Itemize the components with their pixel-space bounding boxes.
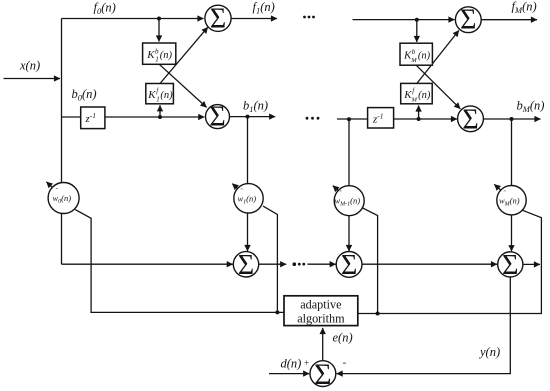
svg-text:(n): (n) — [160, 90, 173, 101]
svg-text:y(n): y(n) — [478, 345, 500, 359]
svg-text:K: K — [147, 89, 156, 101]
svg-text:fM(n): fM(n) — [512, 0, 537, 15]
svg-text:M: M — [410, 57, 417, 64]
svg-text:Σ: Σ — [210, 3, 226, 34]
svg-text:1: 1 — [156, 96, 160, 104]
svg-text:x(n): x(n) — [19, 59, 40, 73]
svg-text:(n): (n) — [418, 51, 431, 62]
svg-text:Σ: Σ — [209, 101, 225, 132]
svg-text:(n): (n) — [160, 50, 173, 61]
svg-text:-: - — [343, 356, 347, 368]
svg-text:b: b — [412, 48, 416, 56]
svg-text:algorithm: algorithm — [297, 311, 345, 325]
svg-text:+: + — [304, 359, 309, 369]
svg-text:b0(n): b0(n) — [72, 87, 97, 103]
svg-text:M: M — [411, 97, 418, 104]
svg-text:Σ: Σ — [462, 104, 478, 135]
svg-text:Σ: Σ — [460, 5, 476, 36]
svg-text:Σ: Σ — [502, 250, 518, 281]
svg-text:f0(n): f0(n) — [94, 1, 116, 17]
svg-text:adaptive: adaptive — [300, 297, 341, 311]
svg-text:Σ: Σ — [341, 250, 357, 281]
svg-text:e(n): e(n) — [333, 331, 353, 345]
svg-text:b: b — [155, 48, 159, 56]
svg-text:d(n): d(n) — [281, 357, 302, 371]
svg-text:(n): (n) — [418, 90, 431, 101]
svg-text:Σ: Σ — [314, 358, 331, 391]
svg-text:bM(n): bM(n) — [517, 99, 545, 115]
svg-text:Σ: Σ — [238, 250, 254, 281]
svg-text:b1(n): b1(n) — [243, 99, 268, 115]
svg-text:1: 1 — [155, 56, 159, 64]
svg-text:K: K — [146, 49, 155, 61]
svg-text:f1(n): f1(n) — [253, 0, 275, 16]
